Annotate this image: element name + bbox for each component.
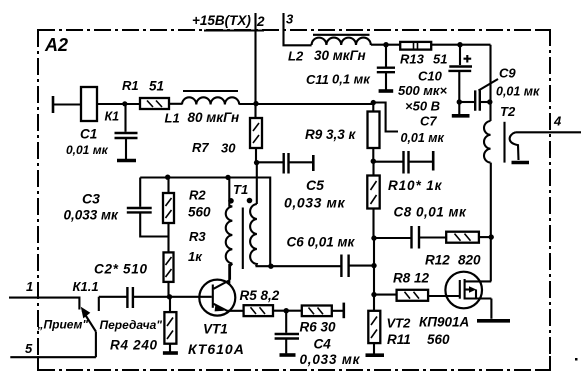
svg-text:С8 0,01 мк: С8 0,01 мк: [394, 205, 468, 220]
svg-text:VТ1: VТ1: [203, 322, 228, 337]
svg-text:С1: С1: [80, 127, 97, 142]
svg-text:Т2: Т2: [500, 104, 516, 119]
svg-text:С7: С7: [420, 114, 437, 129]
svg-text:560: 560: [427, 332, 450, 347]
svg-text:С11: С11: [306, 72, 329, 87]
svg-text:R7: R7: [192, 140, 209, 155]
svg-text:КП901А: КП901А: [419, 315, 469, 330]
svg-text:С6 0,01 мк: С6 0,01 мк: [287, 235, 356, 250]
svg-text:0,01 мк: 0,01 мк: [66, 143, 109, 157]
svg-text:0,1 мк: 0,1 мк: [332, 72, 371, 87]
svg-text:Передача": Передача": [100, 318, 163, 332]
svg-text:80 мкГн: 80 мкГн: [188, 110, 240, 125]
svg-text:1к: 1к: [188, 249, 203, 264]
svg-text:КТ610А: КТ610А: [188, 341, 245, 357]
svg-text:×50 В: ×50 В: [405, 99, 440, 114]
svg-text:820: 820: [458, 253, 481, 268]
svg-text:С10: С10: [418, 69, 443, 84]
svg-text:К1: К1: [105, 110, 120, 124]
svg-text:А2: А2: [44, 35, 68, 55]
svg-text:R4 240: R4 240: [110, 338, 158, 353]
svg-text:1: 1: [26, 279, 33, 294]
svg-text:R5 8,2: R5 8,2: [240, 288, 280, 303]
svg-text:R2: R2: [189, 188, 206, 203]
svg-text:R1: R1: [122, 78, 139, 93]
svg-text:R9 3,3 к: R9 3,3 к: [305, 127, 357, 142]
svg-text:51: 51: [433, 52, 447, 67]
svg-text:С2* 510: С2* 510: [94, 262, 148, 277]
svg-text:51: 51: [149, 79, 164, 94]
svg-text:30: 30: [221, 141, 236, 156]
svg-text:С9: С9: [499, 66, 516, 81]
svg-text:R11: R11: [387, 332, 411, 347]
svg-text:0,01 мк: 0,01 мк: [401, 131, 445, 145]
svg-text:R6 30: R6 30: [300, 320, 337, 335]
svg-text:2: 2: [256, 14, 265, 29]
svg-text:0,033 мк: 0,033 мк: [64, 208, 120, 223]
svg-text:С3: С3: [82, 191, 100, 207]
svg-text:R13: R13: [400, 52, 425, 67]
svg-text:С5: С5: [306, 177, 324, 193]
svg-text:R3: R3: [189, 229, 206, 244]
svg-text:0,033 мк: 0,033 мк: [300, 352, 361, 367]
svg-text:500 мк×: 500 мк×: [398, 83, 448, 98]
svg-text:„Прием": „Прием": [37, 318, 89, 332]
svg-text:L1: L1: [165, 111, 180, 126]
svg-text:VТ2: VТ2: [387, 316, 412, 331]
svg-text:R12: R12: [425, 253, 450, 268]
svg-text:R8 12: R8 12: [393, 271, 430, 286]
svg-text:3: 3: [286, 12, 294, 27]
svg-text:5: 5: [25, 341, 33, 356]
svg-text:560: 560: [188, 205, 211, 220]
svg-text:30 мкГн: 30 мкГн: [314, 48, 366, 63]
svg-text:L2: L2: [288, 49, 304, 64]
svg-text:К1.1: К1.1: [73, 279, 99, 294]
svg-text:0,033 мк: 0,033 мк: [284, 195, 345, 211]
svg-text:С4: С4: [314, 337, 332, 352]
svg-text:Т1: Т1: [233, 182, 248, 197]
svg-text:0,01 мк: 0,01 мк: [496, 85, 540, 99]
svg-text:R10* 1к: R10* 1к: [388, 178, 443, 193]
svg-text:+15В(ТХ): +15В(ТХ): [192, 13, 251, 28]
svg-text:4: 4: [553, 114, 562, 129]
